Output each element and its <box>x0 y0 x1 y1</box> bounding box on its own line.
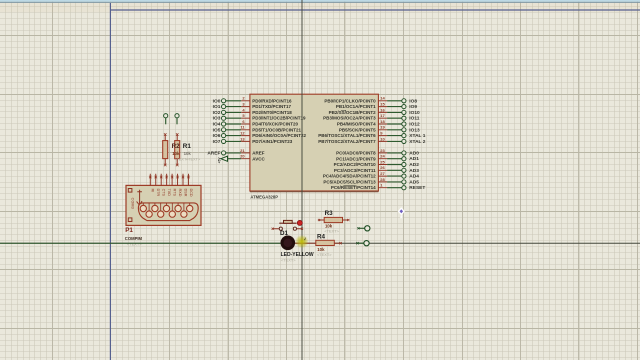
svg-text:+5V: +5V <box>218 157 222 164</box>
svg-text:PC4/ADC4/SDA/PCINT12: PC4/ADC4/SDA/PCINT12 <box>323 174 376 179</box>
svg-text:PC6/RESET/PCINT14: PC6/RESET/PCINT14 <box>331 185 376 190</box>
svg-text:PB6/TOSC1/XTAL1/PCINT6: PB6/TOSC1/XTAL1/PCINT6 <box>318 133 376 138</box>
svg-text:PD7/AIN1/PCINT23: PD7/AIN1/PCINT23 <box>252 139 293 144</box>
svg-text:AD5: AD5 <box>409 179 419 185</box>
svg-text:PD2/INT0/PCINT18: PD2/INT0/PCINT18 <box>252 110 292 115</box>
svg-text:27: 27 <box>380 171 385 176</box>
svg-text:PB5/SCK/PCINT5: PB5/SCK/PCINT5 <box>339 127 376 132</box>
svg-text:19: 19 <box>380 125 385 130</box>
svg-text:PC0/ADC0/PCINT8: PC0/ADC0/PCINT8 <box>336 151 376 156</box>
svg-text:PD6/AIN0/OC0A/PCINT22: PD6/AIN0/OC0A/PCINT22 <box>252 133 306 138</box>
svg-text:PB3/MOSI/OC2A/PCINT3: PB3/MOSI/OC2A/PCINT3 <box>323 116 376 121</box>
svg-text:TXD: TXD <box>167 189 171 197</box>
svg-text:12: 12 <box>240 131 245 136</box>
svg-text:11: 11 <box>240 125 245 130</box>
svg-text:RTS: RTS <box>173 189 177 197</box>
svg-text:21: 21 <box>240 148 245 153</box>
svg-text:IO10: IO10 <box>409 110 420 116</box>
svg-text:AVCC: AVCC <box>252 156 265 161</box>
svg-text:R3: R3 <box>325 210 334 217</box>
svg-text:PC3/ADC3/PCINT11: PC3/ADC3/PCINT11 <box>334 168 376 173</box>
svg-text:IO3: IO3 <box>213 116 221 122</box>
svg-text:RESET: RESET <box>409 185 425 191</box>
svg-text:PD5/T1/OC0B/PCINT21: PD5/T1/OC0B/PCINT21 <box>252 127 301 132</box>
svg-text:PB7/TOSC2/XTAL2/PCINT7: PB7/TOSC2/XTAL2/PCINT7 <box>318 139 376 144</box>
svg-text:PD4/T0/XCK/PCINT20: PD4/T0/XCK/PCINT20 <box>252 122 298 127</box>
svg-text:P1: P1 <box>125 227 133 234</box>
svg-text:IO6: IO6 <box>213 133 221 139</box>
svg-text:<TEXT>: <TEXT> <box>281 257 296 262</box>
svg-text:IO5: IO5 <box>213 127 221 133</box>
svg-text:AREF: AREF <box>252 150 265 155</box>
svg-text:28: 28 <box>380 177 385 182</box>
svg-text:IO4: IO4 <box>213 122 221 128</box>
svg-text:16: 16 <box>380 107 385 112</box>
svg-text:<TEXT>: <TEXT> <box>324 229 339 234</box>
svg-text:IO2: IO2 <box>213 110 221 116</box>
svg-text:<TEXT>: <TEXT> <box>317 252 332 257</box>
svg-text:RI: RI <box>151 189 155 193</box>
svg-text:AD3: AD3 <box>409 168 419 174</box>
svg-text:ATMEGA328P: ATMEGA328P <box>250 194 278 199</box>
svg-text:PD0/RXD/PCINT16: PD0/RXD/PCINT16 <box>252 98 292 103</box>
svg-text:AD1: AD1 <box>409 156 419 162</box>
svg-text:PB2/SS/OC1B/PCINT2: PB2/SS/OC1B/PCINT2 <box>329 110 377 115</box>
svg-text:13: 13 <box>240 136 245 141</box>
svg-text:IO0: IO0 <box>213 98 221 104</box>
svg-text:PC2/ADC2/PCINT10: PC2/ADC2/PCINT10 <box>334 162 377 167</box>
svg-text:XTAL 1: XTAL 1 <box>409 133 425 139</box>
svg-text:<TEXT>: <TEXT> <box>127 241 142 246</box>
svg-text:IO12: IO12 <box>409 122 420 128</box>
svg-text:R2: R2 <box>172 143 181 150</box>
svg-text:COM3: COM3 <box>131 198 135 209</box>
svg-text:IO8: IO8 <box>409 98 417 104</box>
svg-text:R4: R4 <box>317 234 326 241</box>
svg-text:DSR: DSR <box>183 189 187 197</box>
svg-text:PC5/ADC5/SCL/PCINT13: PC5/ADC5/SCL/PCINT13 <box>323 180 376 185</box>
svg-text:AREF: AREF <box>207 150 220 156</box>
svg-text:24: 24 <box>380 154 385 159</box>
svg-text:IO13: IO13 <box>409 127 420 133</box>
svg-text:IO11: IO11 <box>409 116 419 122</box>
svg-text:PC1/ADC1/PCINT9: PC1/ADC1/PCINT9 <box>336 156 376 161</box>
svg-text:CTS: CTS <box>162 189 166 197</box>
svg-text:PD3/INT1/OC2B/PCINT19: PD3/INT1/OC2B/PCINT19 <box>252 116 306 121</box>
svg-text:IO9: IO9 <box>409 104 417 110</box>
svg-text:R1: R1 <box>183 143 192 150</box>
svg-text:20: 20 <box>240 154 245 159</box>
svg-text:IO1: IO1 <box>213 104 221 110</box>
svg-text:23: 23 <box>380 148 385 153</box>
svg-text:RXD: RXD <box>178 189 182 197</box>
svg-text:17: 17 <box>380 113 385 118</box>
svg-text:14: 14 <box>380 96 385 101</box>
svg-text:IO7: IO7 <box>213 139 221 145</box>
svg-text:PB1/OC1A/PCINT1: PB1/OC1A/PCINT1 <box>336 104 376 109</box>
svg-text:DCD: DCD <box>189 189 193 197</box>
svg-text:10: 10 <box>380 136 385 141</box>
svg-text:26: 26 <box>380 165 385 170</box>
svg-text:PB4/MISO/PCINT4: PB4/MISO/PCINT4 <box>337 122 376 127</box>
svg-text:DTR: DTR <box>156 189 160 197</box>
svg-text:15: 15 <box>380 102 385 107</box>
svg-text:AD4: AD4 <box>409 174 419 180</box>
svg-text:AD0: AD0 <box>409 150 419 156</box>
svg-text:10k: 10k <box>172 151 180 156</box>
svg-text:<TEXT>: <TEXT> <box>186 156 201 161</box>
svg-text:10k: 10k <box>184 151 192 156</box>
svg-text:AD2: AD2 <box>409 162 419 168</box>
svg-text:PB0/ICP1/CLKO/PCINT0: PB0/ICP1/CLKO/PCINT0 <box>324 98 376 103</box>
svg-text:XTAL 2: XTAL 2 <box>409 139 425 145</box>
svg-text:18: 18 <box>380 119 385 124</box>
svg-text:25: 25 <box>380 159 385 164</box>
svg-text:PD1/TXD/PCINT17: PD1/TXD/PCINT17 <box>252 104 291 109</box>
